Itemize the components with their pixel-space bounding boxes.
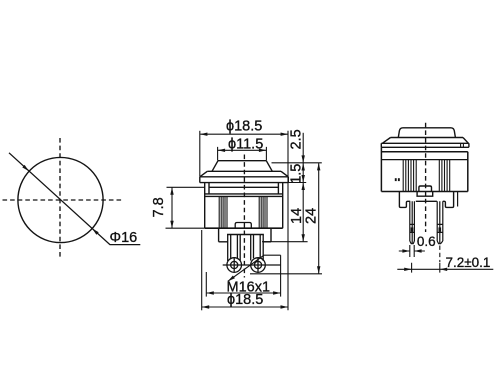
horizontal centerline bbox=[3, 199, 123, 201]
panel hole circle bbox=[18, 157, 103, 242]
side mounting neck right foot bbox=[443, 192, 454, 208]
left rivet circle bbox=[227, 258, 242, 273]
right terminal leg bbox=[251, 235, 264, 262]
plunger bbox=[398, 128, 455, 138]
body sides bbox=[205, 183, 283, 229]
left terminal leg bbox=[228, 235, 241, 262]
dimension 24 bbox=[318, 163, 320, 274]
dimension M16x1 bbox=[206, 255, 280, 296]
svg-text:Φ16: Φ16 bbox=[110, 230, 138, 246]
side hatch left bbox=[403, 160, 416, 192]
center tab bbox=[235, 223, 251, 229]
collar line bbox=[205, 193, 283, 195]
leader M16x1 bbox=[228, 255, 281, 281]
svg-text:0.6: 0.6 bbox=[417, 234, 436, 249]
plunger sides bbox=[212, 161, 272, 172]
svg-text:7.2±0.1: 7.2±0.1 bbox=[446, 255, 491, 270]
dimension 14 bbox=[302, 183, 304, 242]
bezel slants bbox=[383, 138, 469, 144]
side neck floor between pins bbox=[416, 200, 437, 202]
svg-text:24: 24 bbox=[303, 208, 319, 224]
body bottom bbox=[205, 227, 283, 229]
vertical centerline bbox=[59, 138, 61, 259]
left terminal pin bbox=[410, 201, 415, 243]
band ticks bbox=[461, 143, 464, 147]
dimension phi18.5 top bbox=[200, 131, 288, 310]
arrowhead at upper-left circle intersection bbox=[22, 165, 29, 171]
thread hatch left bbox=[219, 196, 227, 228]
svg-text:7.8: 7.8 bbox=[151, 197, 167, 217]
thread hatch right bbox=[259, 196, 267, 228]
bezel top edge bbox=[391, 137, 464, 139]
diameter leader line bbox=[9, 153, 140, 245]
reference line bezel bottom extended bbox=[289, 182, 307, 184]
right pin slot bbox=[439, 227, 442, 231]
dimension phi18.5 bottom bbox=[202, 230, 288, 310]
dimension phi11.5 bbox=[218, 147, 267, 161]
dimension 7.2 +/- 0.1 bbox=[439, 246, 441, 263]
dimension 2.5 bbox=[302, 133, 304, 163]
arrowhead at lower-right circle intersection bbox=[92, 228, 99, 234]
bezel slants bbox=[200, 171, 288, 177]
svg-text:14: 14 bbox=[289, 208, 305, 224]
svg-text:2.5: 2.5 bbox=[289, 129, 305, 149]
svg-text:1.5: 1.5 bbox=[289, 164, 305, 184]
reference line plunger top extended bbox=[272, 162, 322, 164]
bezel band bbox=[381, 143, 469, 147]
reference line terminal bottom extended bbox=[250, 273, 322, 275]
body marking dots bbox=[395, 178, 397, 181]
dimension 1.5 bbox=[302, 163, 304, 182]
thread top line bbox=[205, 195, 283, 197]
svg-text:ϕ11.5: ϕ11.5 bbox=[228, 136, 263, 152]
dimension 7.8 bbox=[166, 187, 205, 228]
neck cutout bbox=[227, 234, 264, 236]
chord line through rivets bbox=[223, 264, 281, 266]
mounting neck bbox=[219, 228, 271, 242]
bezel band bbox=[200, 177, 288, 183]
plunger top bbox=[218, 160, 266, 162]
side mounting neck left foot bbox=[399, 192, 410, 208]
bezel top edge bbox=[207, 170, 281, 172]
front view centerline bbox=[243, 155, 245, 278]
right rivet circle bbox=[251, 258, 266, 273]
side center tab bbox=[419, 186, 432, 192]
right terminal pin bbox=[437, 201, 443, 243]
left pin slot bbox=[411, 227, 414, 231]
svg-text:ϕ18.5: ϕ18.5 bbox=[226, 119, 262, 135]
side hatch right bbox=[439, 160, 449, 192]
dimension 0.6 bbox=[399, 245, 425, 257]
neck right lip bbox=[457, 192, 459, 207]
svg-text:ϕ18.5: ϕ18.5 bbox=[227, 292, 263, 308]
side view centerline bbox=[425, 123, 427, 232]
tab lower block bbox=[417, 192, 433, 197]
reference line bushing bottom extended bbox=[262, 241, 308, 243]
side body outline bbox=[381, 147, 467, 191]
side thread line bbox=[381, 159, 467, 161]
inner step bbox=[209, 183, 278, 194]
